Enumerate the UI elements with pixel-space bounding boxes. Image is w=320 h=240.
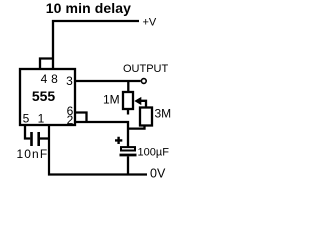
svg-text:2: 2	[67, 113, 74, 127]
svg-text:10nF: 10nF	[17, 147, 49, 161]
svg-text:1: 1	[38, 112, 45, 126]
svg-text:100µF: 100µF	[138, 147, 170, 159]
svg-text:10 min delay: 10 min delay	[46, 0, 131, 16]
svg-text:1M: 1M	[103, 93, 120, 107]
svg-text:OUTPUT: OUTPUT	[123, 63, 169, 75]
svg-text:5: 5	[23, 112, 30, 126]
svg-text:4: 4	[41, 72, 48, 86]
svg-text:3: 3	[66, 74, 73, 88]
svg-text:3M: 3M	[155, 107, 172, 121]
svg-text:+V: +V	[143, 17, 157, 29]
svg-text:8: 8	[51, 72, 58, 86]
svg-text:555: 555	[32, 88, 56, 104]
svg-text:0V: 0V	[150, 167, 166, 181]
